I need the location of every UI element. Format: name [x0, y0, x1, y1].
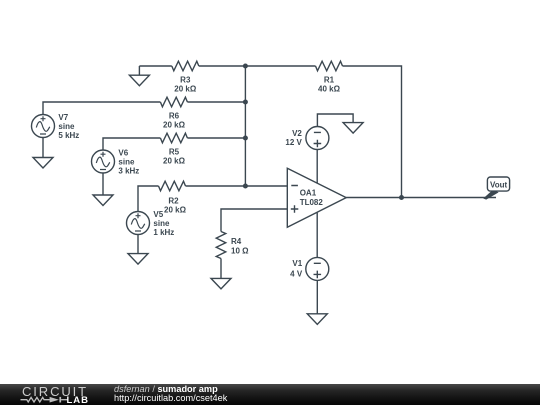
svg-text:V6: V6: [118, 149, 128, 158]
wire R5 to bus: [187, 137, 245, 139]
label V7 sine 5 kHz: [58, 113, 79, 140]
wire V5 to ground: [137, 235, 139, 254]
ground below R4: [211, 278, 231, 289]
svg-text:3 kHz: 3 kHz: [118, 167, 139, 176]
wire V5 to R2: [138, 186, 159, 212]
svg-text:5 kHz: 5 kHz: [58, 131, 79, 140]
wire R6 to bus: [187, 101, 245, 103]
resistor R2: [159, 181, 186, 191]
ground below V5: [128, 254, 148, 265]
ground below V1: [307, 314, 327, 325]
wire V2 to ground: [317, 114, 353, 127]
junction bus-R5: [243, 136, 248, 141]
wire R4 to ground: [220, 259, 222, 279]
svg-text:12 V: 12 V: [285, 138, 302, 147]
svg-text:4 V: 4 V: [290, 270, 303, 279]
svg-text:20 kΩ: 20 kΩ: [164, 206, 187, 215]
svg-text:R1: R1: [324, 75, 335, 84]
wire V1 to ground: [316, 280, 318, 313]
label V5 sine 1 kHz: [153, 210, 174, 237]
svg-text:V7: V7: [58, 113, 68, 122]
svg-text:Vout: Vout: [490, 180, 508, 189]
svg-text:R5: R5: [169, 148, 180, 157]
svg-text:R2: R2: [168, 197, 179, 206]
label OA1 TL082: [300, 189, 324, 207]
label R6 value: [163, 112, 186, 130]
svg-text:R6: R6: [169, 112, 180, 121]
svg-text:V2: V2: [292, 129, 302, 138]
junction bus-R6: [243, 100, 248, 105]
svg-text:V1: V1: [292, 259, 302, 268]
CircuitLab logo: [0, 384, 110, 405]
wire bus to op-amp inverting input: [245, 185, 287, 187]
wire op-amp V+ pin to V2: [316, 127, 318, 184]
svg-text:20 kΩ: 20 kΩ: [163, 157, 186, 166]
svg-text:V5: V5: [153, 210, 163, 219]
footer credit text: [114, 384, 227, 404]
voltage source V2: [306, 127, 329, 150]
Vout flag pennant: [483, 190, 498, 200]
resistor R3: [172, 61, 199, 71]
wire summing bus: [244, 66, 246, 186]
wire R2 to bus: [186, 185, 246, 187]
resistor R1: [316, 61, 343, 71]
op-amp OA1 triangle: [287, 168, 346, 227]
svg-text:sine: sine: [58, 122, 75, 131]
wire R4 node to op-amp non-inverting input: [221, 209, 287, 232]
wire V7 to ground: [42, 138, 44, 158]
wire op-amp V- pin to V1: [316, 213, 318, 258]
footer bar: [0, 384, 540, 405]
label V6 sine 3 kHz: [118, 149, 139, 176]
svg-text:sine: sine: [153, 219, 170, 228]
svg-text:20 kΩ: 20 kΩ: [174, 84, 197, 93]
label R3 value: [174, 75, 197, 93]
label R2 value: [164, 197, 187, 215]
junction bus-R2-input: [243, 184, 248, 189]
wire R1 to output node: [343, 66, 402, 198]
source V6: [92, 150, 115, 173]
resistor R6: [160, 97, 187, 107]
svg-text:TL082: TL082: [300, 198, 324, 207]
svg-text:40 kΩ: 40 kΩ: [318, 84, 341, 93]
ground below V6: [93, 195, 113, 206]
label V2 12 V: [285, 129, 302, 147]
svg-text:1 kHz: 1 kHz: [153, 228, 174, 237]
svg-text:OA1: OA1: [300, 189, 317, 198]
wire op-amp output to Vout: [346, 197, 496, 199]
label V1 4 V: [290, 259, 303, 279]
svg-text:20 kΩ: 20 kΩ: [163, 121, 186, 130]
label R5 value: [163, 148, 186, 166]
svg-text:R3: R3: [180, 75, 191, 84]
wire V6 to ground: [102, 173, 104, 195]
svg-text:sine: sine: [118, 158, 135, 167]
svg-text:10 Ω: 10 Ω: [231, 247, 249, 256]
label R1 value: [318, 75, 341, 93]
Vout flag box: [487, 177, 509, 191]
source V7: [32, 115, 55, 138]
ground top-left: [129, 66, 149, 86]
svg-text:LAB: LAB: [67, 395, 90, 405]
wire top-left to R3: [139, 65, 171, 67]
wire R3 to R1: [199, 65, 316, 67]
wire V6 to R5: [103, 138, 160, 150]
voltage source V1: [306, 257, 329, 280]
wire V7 to R6: [43, 102, 160, 115]
svg-text:R4: R4: [231, 237, 242, 246]
ground near V2: [343, 123, 363, 134]
resistor R5: [160, 133, 187, 143]
junction bus-R3-R1: [243, 64, 248, 69]
label R4 value: [231, 237, 249, 256]
ground below V7: [33, 158, 53, 169]
junction output node: [399, 195, 404, 200]
resistor R4: [216, 232, 226, 259]
source V5: [127, 212, 150, 235]
